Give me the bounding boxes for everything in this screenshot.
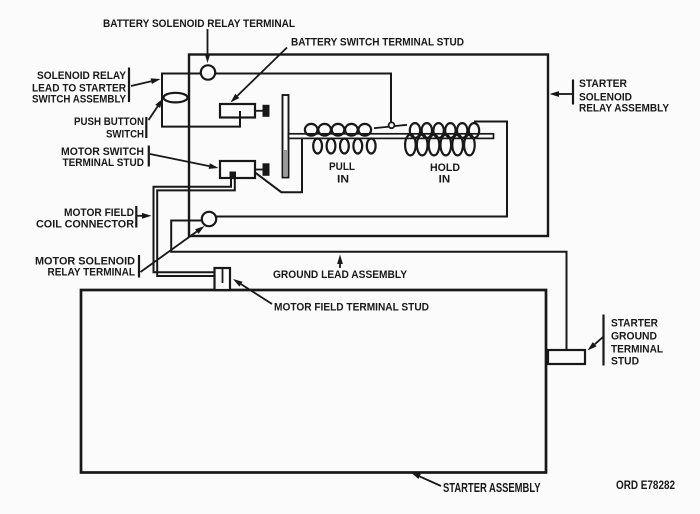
motor switch junction blob bbox=[230, 172, 237, 179]
motor switch stud cap bbox=[264, 164, 269, 175]
leader: solenoid relay lead bbox=[131, 81, 151, 86]
svg-text:PUSH BUTTON: PUSH BUTTON bbox=[74, 116, 144, 128]
svg-text:PULL: PULL bbox=[329, 161, 355, 173]
wire: push button loop / battery switch lead bbox=[162, 74, 240, 127]
wire: battery terminal net (top horizontal) bbox=[162, 73, 391, 75]
tick: motor field coil label bbox=[135, 206, 137, 228]
motor solenoid relay terminal bbox=[202, 212, 216, 226]
solenoid shaft/core bbox=[289, 134, 494, 139]
svg-text:SOLENOID RELAY: SOLENOID RELAY bbox=[37, 70, 127, 82]
leader: starter ground terminal stud bbox=[595, 337, 603, 344]
tick: solenoid relay lead label bbox=[128, 68, 130, 103]
starter ground terminal stud bbox=[548, 350, 585, 364]
push button switch bbox=[164, 93, 188, 103]
starter solenoid relay assembly box bbox=[189, 55, 548, 237]
battery switch stud cap bbox=[264, 106, 269, 116]
svg-text:STARTER: STARTER bbox=[579, 78, 627, 90]
svg-text:TERMINAL STUD: TERMINAL STUD bbox=[63, 157, 145, 169]
node: coil junction dot bbox=[389, 122, 395, 128]
battery switch inner lead bbox=[239, 111, 241, 118]
wire: hold-in coil return bbox=[216, 122, 507, 217]
wire: coil link bbox=[374, 125, 407, 128]
leader: battery solenoid relay terminal bbox=[207, 29, 209, 54]
leader: motor switch terminal stud bbox=[150, 154, 209, 166]
svg-text:STARTER ASSEMBLY: STARTER ASSEMBLY bbox=[443, 480, 541, 495]
leader: motor field coil connector bbox=[138, 215, 143, 217]
svg-text:STUD: STUD bbox=[611, 355, 639, 367]
tick: push button switch label bbox=[145, 117, 147, 138]
svg-text:IN: IN bbox=[337, 173, 349, 185]
svg-text:RELAY ASSEMBLY: RELAY ASSEMBLY bbox=[579, 103, 670, 115]
leader: push button switch bbox=[149, 106, 158, 120]
svg-text:TERMINAL: TERMINAL bbox=[611, 343, 663, 355]
starter assembly box bbox=[81, 290, 546, 473]
svg-text:MOTOR FIELD: MOTOR FIELD bbox=[64, 207, 134, 219]
wire: motor field connector (inner) bbox=[157, 177, 235, 276]
battery solenoid relay terminal bbox=[201, 65, 215, 79]
svg-text:IN: IN bbox=[439, 173, 451, 185]
motor field stud slot bbox=[222, 268, 224, 283]
svg-text:STARTER: STARTER bbox=[611, 317, 658, 329]
svg-text:RELAY TERMINAL: RELAY TERMINAL bbox=[48, 267, 136, 279]
wire: ground lead assembly bbox=[171, 221, 566, 351]
svg-text:GROUND: GROUND bbox=[611, 330, 657, 342]
motor switch stud stem bbox=[255, 169, 264, 171]
svg-text:SWITCH ASSEMBLY: SWITCH ASSEMBLY bbox=[32, 93, 127, 105]
svg-text:BATTERY SWITCH TERMINAL STUD: BATTERY SWITCH TERMINAL STUD bbox=[291, 36, 464, 48]
battery switch body bbox=[220, 104, 255, 118]
svg-text:SOLENOID: SOLENOID bbox=[579, 91, 632, 103]
plunger plate bbox=[283, 95, 289, 178]
leader: motor field terminal stud bbox=[241, 284, 272, 304]
motor field terminal stud bbox=[215, 268, 231, 290]
svg-text:MOTOR SWITCH: MOTOR SWITCH bbox=[61, 146, 144, 158]
tick: motor solenoid label bbox=[138, 255, 140, 278]
motor switch body bbox=[220, 161, 255, 178]
wire: motor field connector (outer) bbox=[154, 177, 232, 272]
svg-text:HOLD: HOLD bbox=[430, 162, 460, 174]
tick: motor switch label bbox=[148, 146, 150, 167]
tick: starter solenoid relay assembly label bbox=[572, 80, 574, 105]
hold-in coil winding bbox=[405, 123, 479, 155]
svg-text:COIL CONNECTOR: COIL CONNECTOR bbox=[36, 218, 134, 230]
battery switch stud stem bbox=[255, 110, 264, 112]
svg-text:BATTERY SOLENOID RELAY TERMINA: BATTERY SOLENOID RELAY TERMINAL bbox=[103, 18, 295, 30]
tick: starter ground stud label bbox=[602, 315, 604, 366]
svg-text:MOTOR FIELD TERMINAL STUD: MOTOR FIELD TERMINAL STUD bbox=[274, 302, 429, 314]
leader: starter assembly bbox=[420, 476, 441, 486]
svg-text:MOTOR SOLENOID: MOTOR SOLENOID bbox=[35, 255, 135, 267]
leader: motor solenoid relay terminal bbox=[141, 232, 197, 273]
svg-text:ORD E78282: ORD E78282 bbox=[616, 478, 675, 492]
wire: motor switch to pull-in coil bbox=[257, 136, 303, 192]
svg-text:GROUND LEAD ASSEMBLY: GROUND LEAD ASSEMBLY bbox=[273, 269, 408, 281]
pull-in coil winding bbox=[305, 124, 376, 154]
wire: down to coil junction bbox=[390, 73, 392, 124]
leader: ground lead assembly bbox=[339, 264, 341, 268]
leader: battery switch terminal stud bbox=[237, 48, 287, 96]
svg-text:SWITCH: SWITCH bbox=[106, 128, 144, 140]
leader: starter solenoid relay assembly bbox=[559, 93, 572, 95]
